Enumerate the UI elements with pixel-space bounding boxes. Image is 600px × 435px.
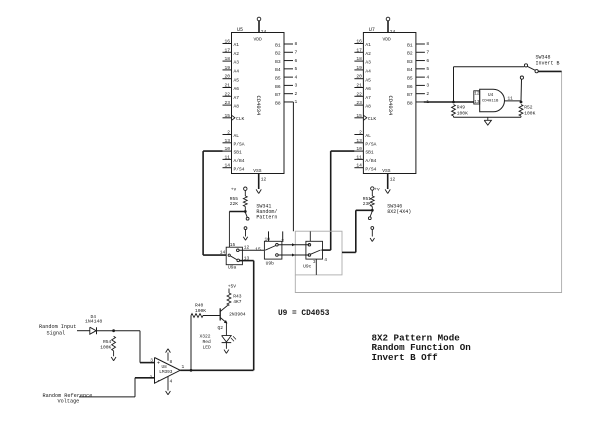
- svg-text:10: 10: [264, 236, 270, 242]
- svg-text:1: 1: [295, 99, 298, 105]
- svg-text:2N3904: 2N3904: [229, 311, 246, 317]
- svg-text:A/B4: A/B4: [234, 158, 245, 164]
- svg-text:B3: B3: [407, 59, 413, 65]
- svg-text:P/SA: P/SA: [234, 141, 245, 147]
- svg-text:18: 18: [224, 56, 230, 62]
- svg-text:CD4034: CD4034: [255, 96, 262, 117]
- svg-text:14: 14: [224, 163, 230, 169]
- svg-text:2: 2: [227, 130, 230, 136]
- svg-text:U7: U7: [369, 27, 375, 33]
- svg-text:17: 17: [356, 47, 362, 53]
- svg-text:20: 20: [356, 74, 362, 80]
- svg-text:8: 8: [426, 41, 429, 47]
- svg-text:R54: R54: [103, 339, 112, 345]
- svg-text:Red: Red: [203, 339, 212, 345]
- svg-text:R49: R49: [457, 104, 466, 110]
- svg-text:4: 4: [295, 74, 298, 80]
- svg-text:CD4011B: CD4011B: [482, 99, 499, 103]
- svg-text:19: 19: [224, 65, 230, 71]
- svg-text:A3: A3: [365, 60, 371, 66]
- svg-text:A8: A8: [234, 104, 240, 110]
- svg-text:13: 13: [224, 138, 230, 144]
- svg-text:21: 21: [224, 83, 230, 89]
- svg-text:P/SA: P/SA: [365, 141, 376, 147]
- svg-text:AL: AL: [234, 133, 240, 139]
- svg-text:1N4148: 1N4148: [85, 319, 102, 325]
- svg-text:4: 4: [426, 74, 429, 80]
- svg-text:U4: U4: [488, 93, 494, 98]
- svg-text:Signal: Signal: [47, 331, 66, 337]
- svg-text:U9a: U9a: [228, 265, 237, 271]
- svg-text:R40: R40: [195, 302, 204, 308]
- svg-text:A1: A1: [365, 42, 371, 48]
- svg-text:P/S4: P/S4: [365, 166, 376, 172]
- svg-text:-: -: [157, 377, 160, 383]
- svg-text:13: 13: [474, 101, 480, 105]
- svg-text:U9c: U9c: [303, 264, 312, 270]
- svg-text:10: 10: [356, 146, 362, 152]
- svg-text:X322: X322: [200, 333, 211, 339]
- svg-text:B6: B6: [407, 84, 413, 90]
- svg-text:22: 22: [356, 91, 362, 97]
- svg-text:VDD: VDD: [254, 37, 263, 43]
- svg-text:R52: R52: [524, 104, 533, 110]
- svg-text:2: 2: [281, 238, 284, 244]
- svg-text:B7: B7: [275, 92, 281, 98]
- svg-text:B1: B1: [407, 42, 413, 48]
- svg-text:100K: 100K: [195, 308, 206, 314]
- svg-text:B5: B5: [407, 76, 413, 82]
- svg-text:1: 1: [182, 364, 185, 370]
- svg-text:23: 23: [224, 100, 230, 106]
- svg-text:LED: LED: [203, 344, 212, 350]
- svg-text:3: 3: [313, 261, 316, 265]
- svg-text:15: 15: [356, 113, 362, 119]
- svg-text:A8: A8: [365, 104, 371, 110]
- svg-text:14: 14: [356, 163, 362, 169]
- svg-text:8: 8: [295, 41, 298, 47]
- svg-text:A2: A2: [365, 51, 371, 57]
- svg-text:6: 6: [295, 58, 298, 64]
- svg-text:A6: A6: [365, 86, 371, 92]
- svg-text:15: 15: [230, 242, 236, 248]
- svg-text:15: 15: [255, 246, 261, 252]
- svg-text:2: 2: [426, 91, 429, 97]
- svg-text:U9b: U9b: [266, 260, 275, 266]
- svg-text:A5: A5: [365, 77, 371, 83]
- svg-text:+v: +v: [231, 188, 237, 193]
- svg-text:15: 15: [224, 113, 230, 119]
- svg-text:B2: B2: [275, 51, 281, 57]
- svg-text:19: 19: [356, 65, 362, 71]
- svg-text:10: 10: [224, 146, 230, 152]
- svg-text:B6: B6: [275, 84, 281, 90]
- svg-text:B1: B1: [275, 42, 281, 48]
- svg-text:+: +: [157, 361, 160, 367]
- svg-text:23K: 23K: [363, 201, 372, 207]
- svg-text:U9 = CD4053: U9 = CD4053: [278, 310, 330, 318]
- svg-text:21: 21: [356, 83, 362, 89]
- svg-text:U5: U5: [237, 27, 243, 33]
- svg-text:A4: A4: [365, 69, 371, 75]
- svg-text:B2: B2: [407, 51, 413, 57]
- svg-text:2: 2: [150, 374, 153, 380]
- svg-text:100K: 100K: [524, 110, 535, 116]
- svg-text:3: 3: [426, 83, 429, 89]
- svg-text:7: 7: [426, 49, 429, 55]
- svg-text:24: 24: [261, 29, 267, 35]
- svg-text:B4: B4: [407, 67, 413, 73]
- svg-text:A3: A3: [234, 60, 240, 66]
- svg-text:2: 2: [359, 130, 362, 136]
- svg-text:3: 3: [295, 83, 298, 89]
- svg-text:CLK: CLK: [236, 116, 245, 122]
- svg-text:8: 8: [170, 359, 173, 365]
- svg-text:5: 5: [295, 66, 298, 72]
- svg-text:22: 22: [224, 91, 230, 97]
- svg-text:SB1: SB1: [234, 150, 243, 156]
- svg-text:B3: B3: [275, 59, 281, 65]
- svg-text:13: 13: [356, 138, 362, 144]
- svg-text:18: 18: [356, 56, 362, 62]
- svg-text:4: 4: [170, 378, 173, 384]
- svg-text:Pattern: Pattern: [256, 215, 277, 221]
- svg-text:Voltage: Voltage: [58, 399, 80, 405]
- svg-text:22K: 22K: [230, 201, 239, 207]
- svg-text:A4: A4: [234, 69, 240, 75]
- svg-text:11: 11: [508, 97, 514, 102]
- svg-text:Q2: Q2: [218, 325, 224, 331]
- svg-text:+v: +v: [374, 188, 380, 193]
- svg-text:20: 20: [224, 74, 230, 80]
- svg-text:16: 16: [224, 39, 230, 45]
- svg-text:A/B4: A/B4: [365, 158, 376, 164]
- svg-text:VSS: VSS: [253, 168, 262, 174]
- svg-text:B7: B7: [407, 92, 413, 98]
- svg-text:2: 2: [295, 91, 298, 97]
- svg-text:16: 16: [356, 39, 362, 45]
- svg-text:Random Input: Random Input: [39, 324, 76, 330]
- svg-text:100K: 100K: [457, 110, 468, 116]
- svg-text:3: 3: [150, 357, 153, 363]
- svg-text:6: 6: [426, 58, 429, 64]
- svg-text:12: 12: [390, 177, 396, 183]
- svg-text:12: 12: [244, 245, 250, 251]
- svg-text:24: 24: [390, 29, 396, 35]
- svg-text:5: 5: [426, 66, 429, 72]
- svg-text:4K7: 4K7: [233, 299, 242, 305]
- svg-text:VSS: VSS: [382, 168, 391, 174]
- svg-text:LM393: LM393: [159, 370, 173, 375]
- svg-text:17: 17: [224, 47, 230, 53]
- svg-text:14: 14: [220, 249, 226, 255]
- svg-text:A6: A6: [234, 86, 240, 92]
- svg-text:B4: B4: [275, 67, 281, 73]
- svg-text:B8: B8: [275, 100, 281, 106]
- svg-text:100K: 100K: [100, 344, 111, 350]
- svg-text:B5: B5: [275, 76, 281, 82]
- svg-text:11: 11: [356, 154, 362, 160]
- svg-text:SB1: SB1: [365, 150, 374, 156]
- svg-text:P/S4: P/S4: [234, 166, 245, 172]
- svg-text:CLK: CLK: [368, 116, 377, 122]
- svg-text:A2: A2: [234, 51, 240, 57]
- svg-text:SW348: SW348: [536, 54, 551, 60]
- svg-text:+5V: +5V: [228, 283, 237, 289]
- svg-text:VDD: VDD: [383, 37, 392, 43]
- svg-text:R43: R43: [233, 293, 242, 299]
- svg-text:23: 23: [356, 100, 362, 106]
- svg-text:11: 11: [224, 154, 230, 160]
- svg-text:AL: AL: [365, 133, 371, 139]
- svg-text:4: 4: [324, 257, 327, 263]
- svg-text:B8: B8: [407, 100, 413, 106]
- svg-text:Invert B Off: Invert B Off: [372, 352, 439, 363]
- svg-text:A7: A7: [365, 95, 371, 101]
- svg-text:A1: A1: [234, 42, 240, 48]
- svg-text:A5: A5: [234, 77, 240, 83]
- svg-text:CD4034: CD4034: [387, 96, 394, 117]
- svg-text:8X2(4X4): 8X2(4X4): [387, 209, 411, 215]
- svg-text:12: 12: [474, 93, 480, 97]
- svg-text:12: 12: [261, 177, 267, 183]
- svg-text:A7: A7: [234, 95, 240, 101]
- svg-text:7: 7: [295, 49, 298, 55]
- svg-text:Invert B: Invert B: [536, 61, 560, 67]
